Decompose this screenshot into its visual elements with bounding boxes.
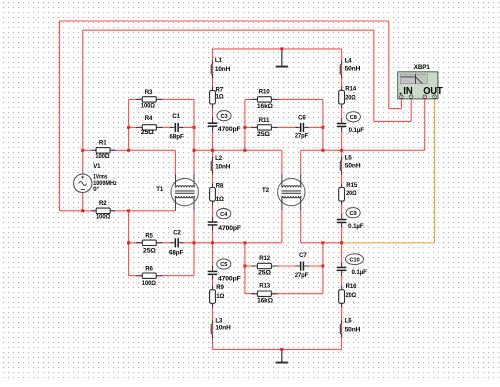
wire R10 row bbox=[245, 98, 323, 100]
svg-text:R10: R10 bbox=[259, 89, 271, 96]
svg-text:C8: C8 bbox=[350, 115, 357, 121]
svg-text:27pF: 27pF bbox=[295, 272, 309, 279]
svg-text:C7: C7 bbox=[299, 252, 307, 259]
wire T2 left pin drop bbox=[281, 150, 283, 174]
svg-text:25Ω: 25Ω bbox=[258, 269, 271, 276]
svg-text:L4: L4 bbox=[345, 57, 353, 64]
svg-text:C3: C3 bbox=[220, 114, 227, 120]
wire right bottom box right vertical bbox=[322, 243, 324, 294]
svg-text:R15: R15 bbox=[346, 182, 358, 189]
wire middle column mid bbox=[212, 150, 214, 243]
wire T2 right pin rise bbox=[300, 150, 302, 174]
wire middle column upper bbox=[212, 49, 214, 150]
wire IN+ horizontal bbox=[389, 108, 402, 110]
svg-text:0.1µF: 0.1µF bbox=[348, 223, 364, 230]
capacitor C2 bbox=[169, 230, 184, 257]
svg-text:50nH: 50nH bbox=[345, 66, 361, 73]
junction R12 row left bbox=[243, 265, 246, 268]
svg-text:R14: R14 bbox=[345, 86, 357, 93]
junction T1 right pin on main row bbox=[193, 149, 196, 152]
wire left top box right vertical bbox=[193, 99, 195, 174]
svg-text:100Ω: 100Ω bbox=[142, 280, 156, 287]
svg-text:1Ω: 1Ω bbox=[216, 293, 224, 300]
junction left box bottom-left on main row bbox=[127, 149, 130, 152]
svg-text:20Ω: 20Ω bbox=[346, 190, 357, 197]
svg-text:4700pF: 4700pF bbox=[218, 126, 241, 133]
svg-text:50nH: 50nH bbox=[345, 326, 361, 333]
svg-text:0.1µF: 0.1µF bbox=[352, 269, 368, 276]
wire main row right segment bbox=[301, 149, 425, 151]
AC source V1 bbox=[74, 163, 117, 193]
wire right top box right vertical bbox=[322, 99, 324, 150]
svg-text:R9: R9 bbox=[216, 284, 224, 291]
svg-text:C9: C9 bbox=[350, 211, 357, 217]
wire outer top rail bbox=[60, 20, 389, 22]
resistor R13 bbox=[251, 283, 278, 305]
svg-text:25Ω: 25Ω bbox=[257, 131, 270, 138]
wire left bottom box left vertical bbox=[128, 211, 130, 276]
resistor R2 bbox=[91, 200, 115, 221]
svg-text:10nH: 10nH bbox=[215, 66, 230, 73]
svg-text:R5: R5 bbox=[145, 233, 153, 240]
junction right bottom box top-right bbox=[321, 241, 324, 244]
svg-text:C4: C4 bbox=[220, 212, 228, 218]
resistor R12 bbox=[251, 255, 278, 276]
svg-text:27pF: 27pF bbox=[295, 132, 309, 139]
svg-text:T1: T1 bbox=[156, 186, 164, 193]
wire R4 row bbox=[129, 126, 194, 128]
wire R3 row bbox=[129, 98, 194, 100]
svg-text:0.1µF: 0.1µF bbox=[349, 127, 365, 134]
resistor R16 bbox=[339, 283, 357, 308]
svg-text:R3: R3 bbox=[145, 89, 153, 96]
svg-text:L1: L1 bbox=[215, 57, 223, 64]
capacitor C4 bbox=[208, 209, 242, 232]
svg-text:L2: L2 bbox=[215, 155, 223, 162]
svg-text:20Ω: 20Ω bbox=[345, 94, 356, 101]
wire OUT- orange horizontal bbox=[342, 242, 435, 244]
svg-text:C5: C5 bbox=[220, 262, 227, 268]
wire right column lower bbox=[341, 243, 343, 350]
svg-text:R16: R16 bbox=[346, 283, 358, 290]
wire row 243 right segment bbox=[301, 242, 342, 244]
svg-text:C10: C10 bbox=[349, 257, 359, 263]
wire outer left vertical bbox=[59, 21, 61, 211]
ground bottom bbox=[276, 351, 288, 363]
terminal IN+ bbox=[400, 95, 403, 98]
svg-text:R11: R11 bbox=[259, 117, 270, 124]
inductor L4 bbox=[340, 57, 360, 78]
wire middle column lower bbox=[212, 243, 214, 350]
svg-text:1Ω: 1Ω bbox=[216, 196, 224, 203]
junction V1 bottom bbox=[81, 209, 84, 212]
svg-text:10nH: 10nH bbox=[215, 325, 230, 332]
svg-text:R7: R7 bbox=[216, 86, 224, 93]
svg-text:68pF: 68pF bbox=[169, 249, 184, 256]
junction R5 row left bbox=[127, 241, 130, 244]
capacitor C1 bbox=[169, 113, 184, 141]
svg-text:10nH: 10nH bbox=[215, 164, 230, 171]
terminal OUT+ bbox=[423, 95, 426, 98]
wire OUT+ vertical bbox=[424, 98, 426, 150]
wire right bottom box left vertical bbox=[244, 243, 246, 294]
inductor L5 bbox=[340, 155, 360, 175]
wire right column upper bbox=[341, 49, 343, 150]
resistor R10 bbox=[251, 89, 278, 110]
svg-text:R6: R6 bbox=[145, 265, 153, 272]
resistor R5 bbox=[136, 233, 163, 255]
wire T2 bottom-right pin drop bbox=[300, 210, 302, 243]
junction R4 row right bbox=[193, 126, 196, 129]
wire R13 row bbox=[245, 293, 323, 295]
svg-text:V1: V1 bbox=[93, 163, 101, 170]
svg-text:L3: L3 bbox=[215, 317, 223, 324]
junction C5 column on R5 row bbox=[211, 241, 214, 244]
wire bottom ground rail bbox=[213, 348, 342, 350]
transformer T1 bbox=[156, 174, 198, 210]
capacitor C6 bbox=[295, 114, 309, 139]
junction T1 bottom-right pin on R5 row bbox=[193, 241, 196, 244]
svg-text:C6: C6 bbox=[298, 114, 306, 121]
capacitor C10 bbox=[337, 254, 367, 276]
junction L4 column on main row bbox=[340, 149, 343, 152]
capacitor C7 bbox=[295, 252, 309, 279]
junction R4 row left bbox=[127, 126, 130, 129]
wire top ground rail bbox=[213, 48, 342, 50]
svg-text:25Ω: 25Ω bbox=[143, 248, 156, 255]
svg-text:R2: R2 bbox=[99, 200, 107, 207]
svg-text:R12: R12 bbox=[259, 255, 271, 262]
junction left bottom box top bbox=[127, 209, 130, 212]
wire V1 top vertical bbox=[82, 30, 84, 174]
wire T2 bottom-left pin drop bbox=[281, 210, 283, 243]
svg-text:L5: L5 bbox=[345, 155, 353, 162]
wire R12 row bbox=[245, 265, 323, 267]
resistor R6 bbox=[136, 265, 163, 287]
svg-text:L6: L6 bbox=[345, 317, 353, 324]
junction right bottom box top-left bbox=[243, 241, 246, 244]
junction right top box left on main row bbox=[243, 149, 246, 152]
svg-text:100Ω: 100Ω bbox=[95, 153, 109, 160]
capacitor C5 bbox=[208, 259, 241, 283]
wire main row center segment bbox=[194, 149, 282, 151]
wire IN- vertical from inner rail bbox=[373, 30, 375, 121]
svg-text:R8: R8 bbox=[216, 183, 224, 190]
wire IN- horizontal bbox=[374, 120, 411, 122]
resistor R1 bbox=[91, 140, 115, 160]
wire IN- terminal stub bbox=[410, 98, 412, 121]
inductor L2 bbox=[211, 155, 230, 175]
inductor L1 bbox=[211, 57, 230, 78]
svg-text:T2: T2 bbox=[262, 187, 270, 194]
svg-text:68pF: 68pF bbox=[169, 134, 184, 141]
resistor R8 bbox=[210, 183, 224, 206]
svg-text:25Ω: 25Ω bbox=[141, 129, 154, 136]
junction top ground bbox=[280, 47, 283, 50]
terminal IN- bbox=[410, 95, 413, 98]
junction R11 row left bbox=[243, 126, 246, 129]
svg-text:C2: C2 bbox=[173, 230, 181, 237]
bode plotter XBP1 bbox=[398, 64, 444, 99]
junction orange OUT- on row 243 bbox=[340, 241, 343, 244]
svg-text:C1: C1 bbox=[172, 113, 180, 120]
terminal OUT- bbox=[433, 95, 436, 98]
svg-text:100Ω: 100Ω bbox=[141, 103, 155, 110]
junction R11 row right bbox=[321, 126, 324, 129]
resistor R14 bbox=[339, 86, 357, 108]
wire inner top rail bbox=[83, 29, 374, 31]
wire T1 bottom-left pin bbox=[174, 209, 176, 212]
svg-text:100Ω: 100Ω bbox=[96, 214, 110, 221]
wire main row left segment bbox=[83, 149, 176, 151]
svg-text:4700pF: 4700pF bbox=[218, 225, 241, 232]
resistor R15 bbox=[339, 182, 358, 205]
junction bottom ground bbox=[280, 348, 283, 351]
svg-text:4700pF: 4700pF bbox=[218, 276, 241, 283]
junction right top box right on main row bbox=[321, 149, 324, 152]
wire IN+ vertical from top rail bbox=[388, 21, 390, 109]
svg-text:0°: 0° bbox=[93, 186, 99, 193]
svg-text:50nH: 50nH bbox=[345, 162, 361, 169]
svg-text:R13: R13 bbox=[259, 283, 271, 290]
wire OUT- orange vertical bbox=[434, 98, 436, 242]
resistor R9 bbox=[210, 284, 225, 307]
wire IN+ terminal stub bbox=[400, 98, 402, 108]
resistor R11 bbox=[251, 117, 278, 138]
svg-text:16kΩ: 16kΩ bbox=[257, 297, 273, 304]
svg-text:1Ω: 1Ω bbox=[216, 93, 224, 100]
capacitor C8 bbox=[337, 112, 364, 134]
junction C3 column on main row bbox=[211, 149, 214, 152]
wire T1 left pin drop bbox=[174, 150, 176, 174]
wire T1 bottom-right pin drop bbox=[193, 210, 195, 243]
svg-text:16kΩ: 16kΩ bbox=[257, 103, 273, 110]
inductor L3 bbox=[211, 317, 231, 338]
ground top bbox=[276, 51, 288, 68]
junction V1 top / R1 bbox=[81, 149, 84, 152]
wire bottom row left bbox=[60, 210, 176, 212]
svg-text:20Ω: 20Ω bbox=[346, 292, 357, 299]
wire R6 row bbox=[129, 275, 194, 277]
junction R12 row right bbox=[321, 265, 324, 268]
wire left top box left vertical bbox=[128, 99, 130, 150]
capacitor C3 bbox=[208, 111, 241, 134]
inductor L6 bbox=[340, 317, 360, 338]
svg-text:R4: R4 bbox=[145, 115, 153, 122]
capacitor C9 bbox=[337, 208, 364, 230]
svg-text:R1: R1 bbox=[99, 140, 107, 147]
wire R11 row bbox=[245, 126, 323, 128]
wire R5 row bbox=[129, 242, 282, 244]
resistor R3 bbox=[136, 89, 163, 110]
svg-text:XBP1: XBP1 bbox=[414, 64, 431, 71]
transformer T2 bbox=[262, 174, 305, 210]
resistor R4 bbox=[136, 115, 163, 136]
wire right column mid bbox=[341, 150, 343, 243]
wire right top box left vertical bbox=[244, 99, 246, 150]
resistor R7 bbox=[210, 86, 224, 108]
wire V1 bottom vertical bbox=[82, 192, 84, 211]
wire R6 right vertical bbox=[193, 243, 195, 276]
